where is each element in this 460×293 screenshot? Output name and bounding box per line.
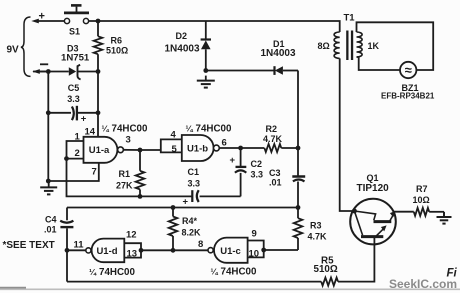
op U1-b gate [182,135,220,161]
svg-text:R4*: R4* [182,216,198,226]
svg-text:S1: S1 [69,27,80,37]
svg-text:11: 11 [74,240,85,251]
pin labels U1-a [75,127,131,178]
pin labels U1-b [171,130,227,155]
wire U1-d inputs to U1-c out [141,249,208,251]
svg-text:EFB-RP34B21: EFB-RP34B21 [381,92,435,101]
svg-text:+: + [230,155,236,166]
wire U1-c inputs to R3 [264,249,298,251]
svg-text:3.3: 3.3 [188,179,201,189]
svg-text:510Ω: 510Ω [106,46,128,56]
node pin11 [65,248,70,253]
wire T1 secondary loop [357,22,434,70]
svg-text:C4: C4 [45,215,57,225]
transformer T1 [318,13,380,61]
svg-text:74HC00: 74HC00 [112,124,148,135]
node top-rail/R6 [96,19,101,24]
node D2/D1/ground [203,68,208,73]
node U1-d inputs [139,248,144,253]
capacitor C5 [48,83,98,125]
svg-text:4.7K: 4.7K [308,232,328,242]
svg-text:C3: C3 [269,168,281,178]
svg-text:.01: .01 [269,178,282,188]
svg-text:74HC00: 74HC00 [196,124,232,135]
svg-text:¼: ¼ [89,267,97,277]
svg-text:14: 14 [85,127,96,138]
op U1-c gate [208,238,248,263]
svg-text:1N4003: 1N4003 [165,44,200,55]
svg-text:¼: ¼ [102,124,110,134]
diode D3 1N751 [61,44,90,80]
svg-text:R6: R6 [111,36,123,46]
capacitor C2 [230,148,264,196]
wire pin7 to ground [48,163,99,181]
capacitor C4 [44,215,73,235]
battery 9V label [7,45,20,56]
wire D1 to C3 node [297,71,299,177]
node C5 left [46,110,51,115]
svg-text:8: 8 [198,239,203,250]
svg-text:+: + [39,11,45,23]
wire C4 vertical top [66,208,68,221]
svg-text:1K: 1K [368,41,380,51]
svg-text:R7: R7 [416,184,428,194]
gray baseline artifact [0,288,460,290]
svg-text:6: 6 [222,138,227,149]
svg-text:10Ω: 10Ω [413,195,430,205]
svg-text:U1-c: U1-c [220,246,241,257]
diode D1 1N4003 [261,39,296,75]
svg-text:3.3: 3.3 [67,94,80,104]
wire zener row [33,71,98,73]
svg-text:8Ω: 8Ω [318,41,330,51]
svg-text:≈: ≈ [405,63,412,78]
svg-text:C1: C1 [188,167,200,177]
svg-text:8.2K: 8.2K [182,228,202,238]
svg-text:4.7K: 4.7K [263,134,283,144]
node R1 bottom [138,194,143,199]
node R4 bottom [171,248,176,253]
svg-text:D2: D2 [176,31,188,41]
label U1-b 74HC00 [186,124,232,135]
caption Fi [447,268,458,280]
wire T1 primary to Q1 [340,58,355,211]
capacitor C3 [269,168,305,188]
resistor R5 [314,256,339,286]
node U1-a out [138,148,143,153]
label U1-a 74HC00 [102,124,148,135]
resistor R3 [294,218,327,250]
node C5 right [96,110,101,115]
wire bottom-section top rail [67,207,298,209]
svg-text:*SEE TEXT: *SEE TEXT [3,240,55,251]
svg-text:74HC00: 74HC00 [221,267,257,278]
wire D2 branch [205,21,207,71]
svg-text:¼: ¼ [211,267,219,277]
svg-text:3.3: 3.3 [251,170,264,180]
ground pin7 [40,182,57,194]
svg-text:1N4003: 1N4003 [261,48,296,59]
battery + terminal arrow [31,11,64,24]
ground D2 [197,76,215,88]
node U1-a pin2 [64,156,69,161]
battery brace [21,17,31,76]
svg-text:Fi: Fi [447,268,458,280]
resistor R1 [116,150,144,196]
svg-text:9V: 9V [7,45,20,56]
wire C4 to pin11 and rail [66,228,68,281]
node R4 top [171,205,176,210]
wire Q1 emitter [394,211,414,213]
label see text [3,240,55,251]
svg-text:+: + [81,114,87,125]
svg-text:C2: C2 [251,159,263,169]
wire bottom rail [67,237,374,282]
svg-text:2: 2 [75,148,80,159]
wire C3 to R3 [297,182,299,219]
wire U1-b inputs bracket [161,139,182,152]
op U1-a gate [84,137,124,163]
wire battery-minus vertical [47,72,49,182]
label U1-d 74HC00 [89,267,135,278]
svg-text:1N751: 1N751 [61,53,90,64]
resistor R7 [413,184,445,216]
svg-text:3: 3 [126,135,131,146]
node C3 bottom rail [296,205,301,210]
svg-text:C5: C5 [68,83,80,93]
svg-text:U1-b: U1-b [187,143,208,154]
svg-text:Q1: Q1 [367,173,379,183]
node ground left [46,179,51,184]
battery - terminal arrow [32,64,48,74]
svg-text:R3: R3 [310,221,322,231]
svg-text:TIP120: TIP120 [357,183,390,194]
svg-text:R2: R2 [266,124,278,134]
svg-text:12: 12 [126,230,137,241]
svg-text:¼: ¼ [186,124,194,134]
node battery-minus [46,69,51,74]
resistor R6 [94,21,129,56]
resistor R2 [263,124,298,152]
transistor Q1 TIP120 [350,173,396,244]
svg-text:27K: 27K [116,181,133,191]
label pin 8 [198,239,203,250]
pin labels U1-c [249,229,260,260]
capacitor C1 [183,167,241,207]
svg-text:7: 7 [92,167,97,178]
wire U1-a output [123,149,160,151]
label U1-c 74HC00 [211,267,257,278]
svg-text:510Ω: 510Ω [314,264,338,275]
svg-text:T1: T1 [344,13,356,24]
svg-text:9: 9 [252,229,257,240]
node U1-b out / C2 [238,146,243,151]
op U1-d gate [86,239,125,263]
wire +V vertical pin14 rail [97,54,99,137]
buzzer BZ1 [381,62,435,101]
wire U1-c inputs bracket [248,241,264,258]
svg-text:74HC00: 74HC00 [99,267,135,278]
node zener/R6 junction [96,69,101,74]
wire U1-d inputs bracket [124,243,141,257]
wire top rail [89,21,340,32]
wire pin11 [67,249,86,251]
switch S1 [64,5,89,36]
wire D1 row [206,70,298,72]
diode D2 1N4003 [165,31,212,55]
svg-text:R1: R1 [119,169,131,179]
resistor R4 [169,208,201,251]
svg-text:.01: .01 [44,225,57,235]
pin labels U1-d [74,230,138,260]
node R2/C3 [296,146,301,151]
wire U1-b output [219,147,264,149]
node U1-c inputs [261,248,266,253]
svg-text:U1-d: U1-d [96,246,117,257]
wire U1-a inputs bracket [67,141,193,196]
svg-text:+: + [183,196,189,207]
svg-text:U1-a: U1-a [89,145,110,156]
ground R7 [437,212,452,224]
watermark SeekIC.com [389,277,457,291]
